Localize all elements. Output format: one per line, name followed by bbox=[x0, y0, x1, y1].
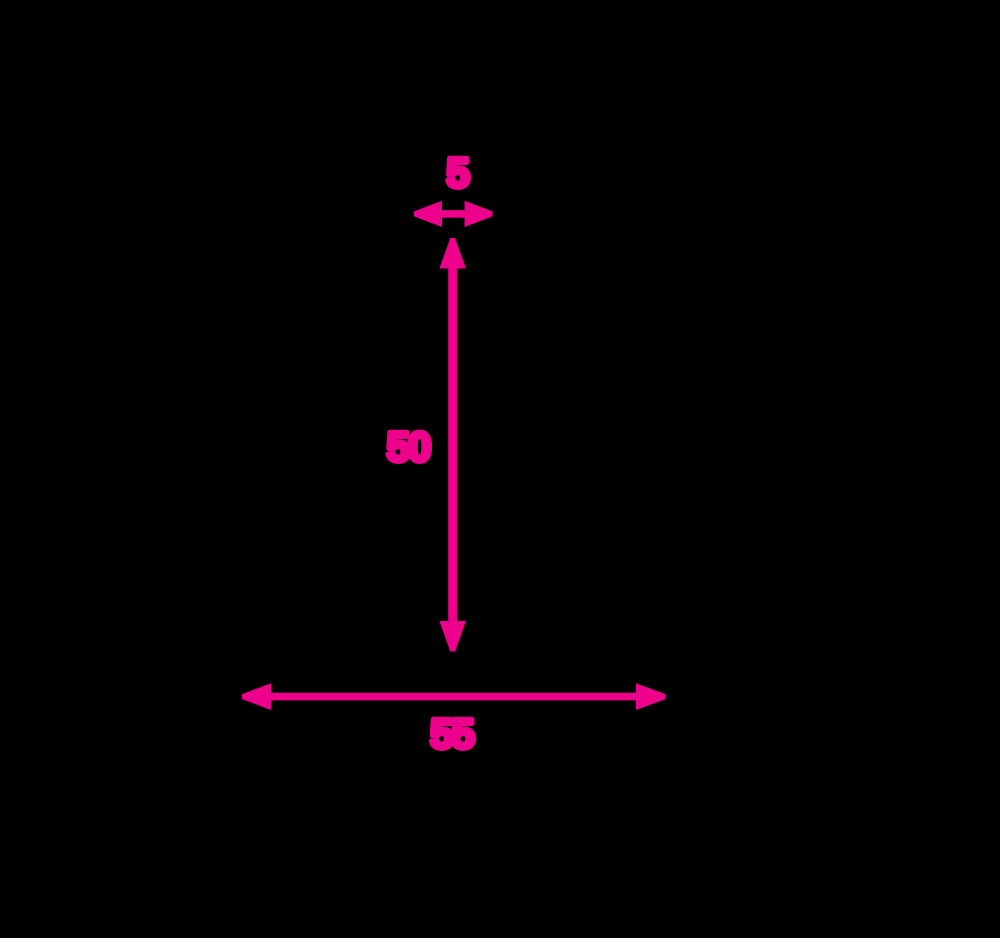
svg-text:50: 50 bbox=[387, 423, 430, 470]
vertical double arrow (height 50) bbox=[439, 238, 466, 652]
svg-text:5: 5 bbox=[446, 149, 469, 196]
horizontal double arrow (width 5) bbox=[414, 201, 493, 227]
svg-text:55: 55 bbox=[430, 710, 474, 757]
horizontal double arrow (width 55) bbox=[242, 683, 666, 710]
